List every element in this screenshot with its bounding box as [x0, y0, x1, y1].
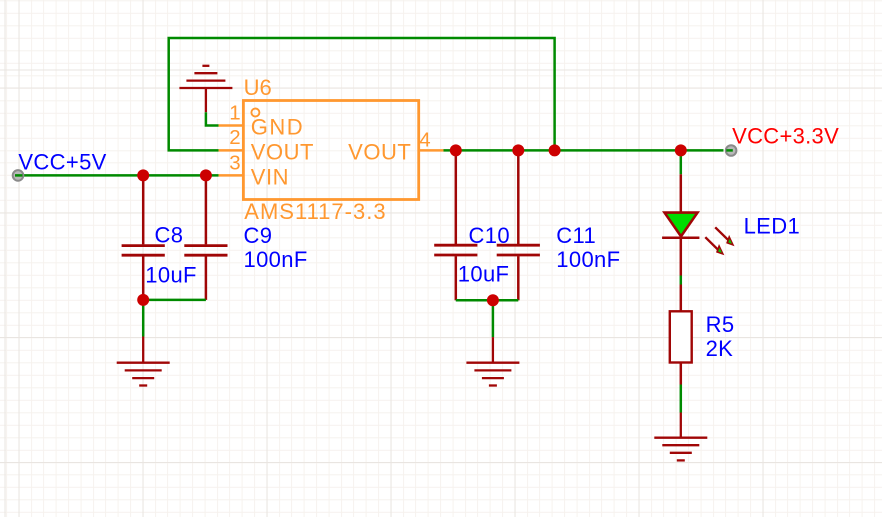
LED LED1 — [662, 174, 699, 275]
svg-text:VOUT: VOUT — [251, 139, 314, 164]
svg-text:1: 1 — [229, 102, 240, 125]
LED arrow 2 — [705, 237, 724, 255]
svg-text:C9: C9 — [244, 223, 273, 248]
op-amp U6 body AMS1117-3.3 — [243, 101, 418, 200]
pin 4 VOUT right — [419, 149, 444, 152]
junction dot output rail C10 — [450, 144, 462, 156]
terminal VCC+5V — [13, 170, 24, 181]
ground (bottom left) — [117, 337, 170, 386]
pin 2 VOUT — [219, 149, 244, 152]
svg-text:2K: 2K — [706, 336, 734, 361]
junction dot output rail feedback — [549, 144, 561, 156]
LED arrow 1 — [715, 227, 734, 246]
junction dot bottom left rail — [137, 294, 149, 306]
svg-text:VCC+3.3V: VCC+3.3V — [732, 124, 839, 149]
ground (bottom right) — [654, 413, 707, 461]
wire pin2 feedback loop — [169, 38, 555, 150]
svg-text:100nF: 100nF — [244, 247, 308, 272]
wire ground to pin1 — [206, 112, 219, 125]
junction dot input rail C8 — [137, 169, 149, 181]
junction dot output rail LED — [675, 144, 687, 156]
svg-text:VOUT: VOUT — [348, 139, 411, 164]
wire VCC+5V input rail — [18, 174, 219, 177]
capacitor C9 — [184, 176, 227, 300]
svg-text:LED1: LED1 — [744, 214, 800, 239]
wire R5 to ground — [680, 385, 683, 413]
pin1 dot marker — [251, 109, 259, 117]
wire rail to LED — [680, 150, 683, 174]
wire VOUT output rail — [444, 149, 724, 152]
wire to left ground — [142, 300, 145, 337]
svg-text:10uF: 10uF — [145, 263, 197, 288]
capacitor C10 — [434, 151, 477, 300]
svg-text:C11: C11 — [556, 223, 596, 248]
capacitor C8 — [122, 176, 165, 300]
svg-text:3: 3 — [229, 151, 240, 174]
wire to mid ground — [492, 300, 495, 337]
junction dot bottom mid rail — [487, 294, 499, 306]
resistor R5 — [670, 285, 692, 385]
junction dot input rail C9 — [200, 169, 212, 181]
terminal VCC+3.3V — [726, 145, 737, 156]
svg-text:GND: GND — [251, 115, 304, 140]
svg-text:C8: C8 — [155, 223, 184, 248]
wire LED to R5 — [680, 276, 683, 285]
svg-text:R5: R5 — [706, 312, 735, 337]
ground (top, at U6 pin1) — [179, 66, 232, 112]
capacitor C11 — [497, 151, 540, 300]
ground (bottom middle) — [466, 337, 519, 385]
svg-text:U6: U6 — [244, 75, 272, 100]
svg-text:AMS1117-3.3: AMS1117-3.3 — [244, 199, 386, 224]
svg-text:100nF: 100nF — [556, 247, 620, 272]
pin 1 GND — [219, 124, 244, 127]
wire C10-C11 bottom rail — [456, 299, 519, 302]
junction dot output rail C11 — [512, 144, 524, 156]
svg-text:2: 2 — [229, 126, 240, 149]
svg-text:10uF: 10uF — [458, 262, 510, 287]
svg-text:VIN: VIN — [251, 164, 289, 189]
svg-text:VCC+5V: VCC+5V — [18, 149, 106, 174]
wire C8-C9 bottom rail — [143, 299, 206, 302]
pin 3 VIN — [219, 174, 244, 177]
svg-text:4: 4 — [419, 128, 430, 151]
